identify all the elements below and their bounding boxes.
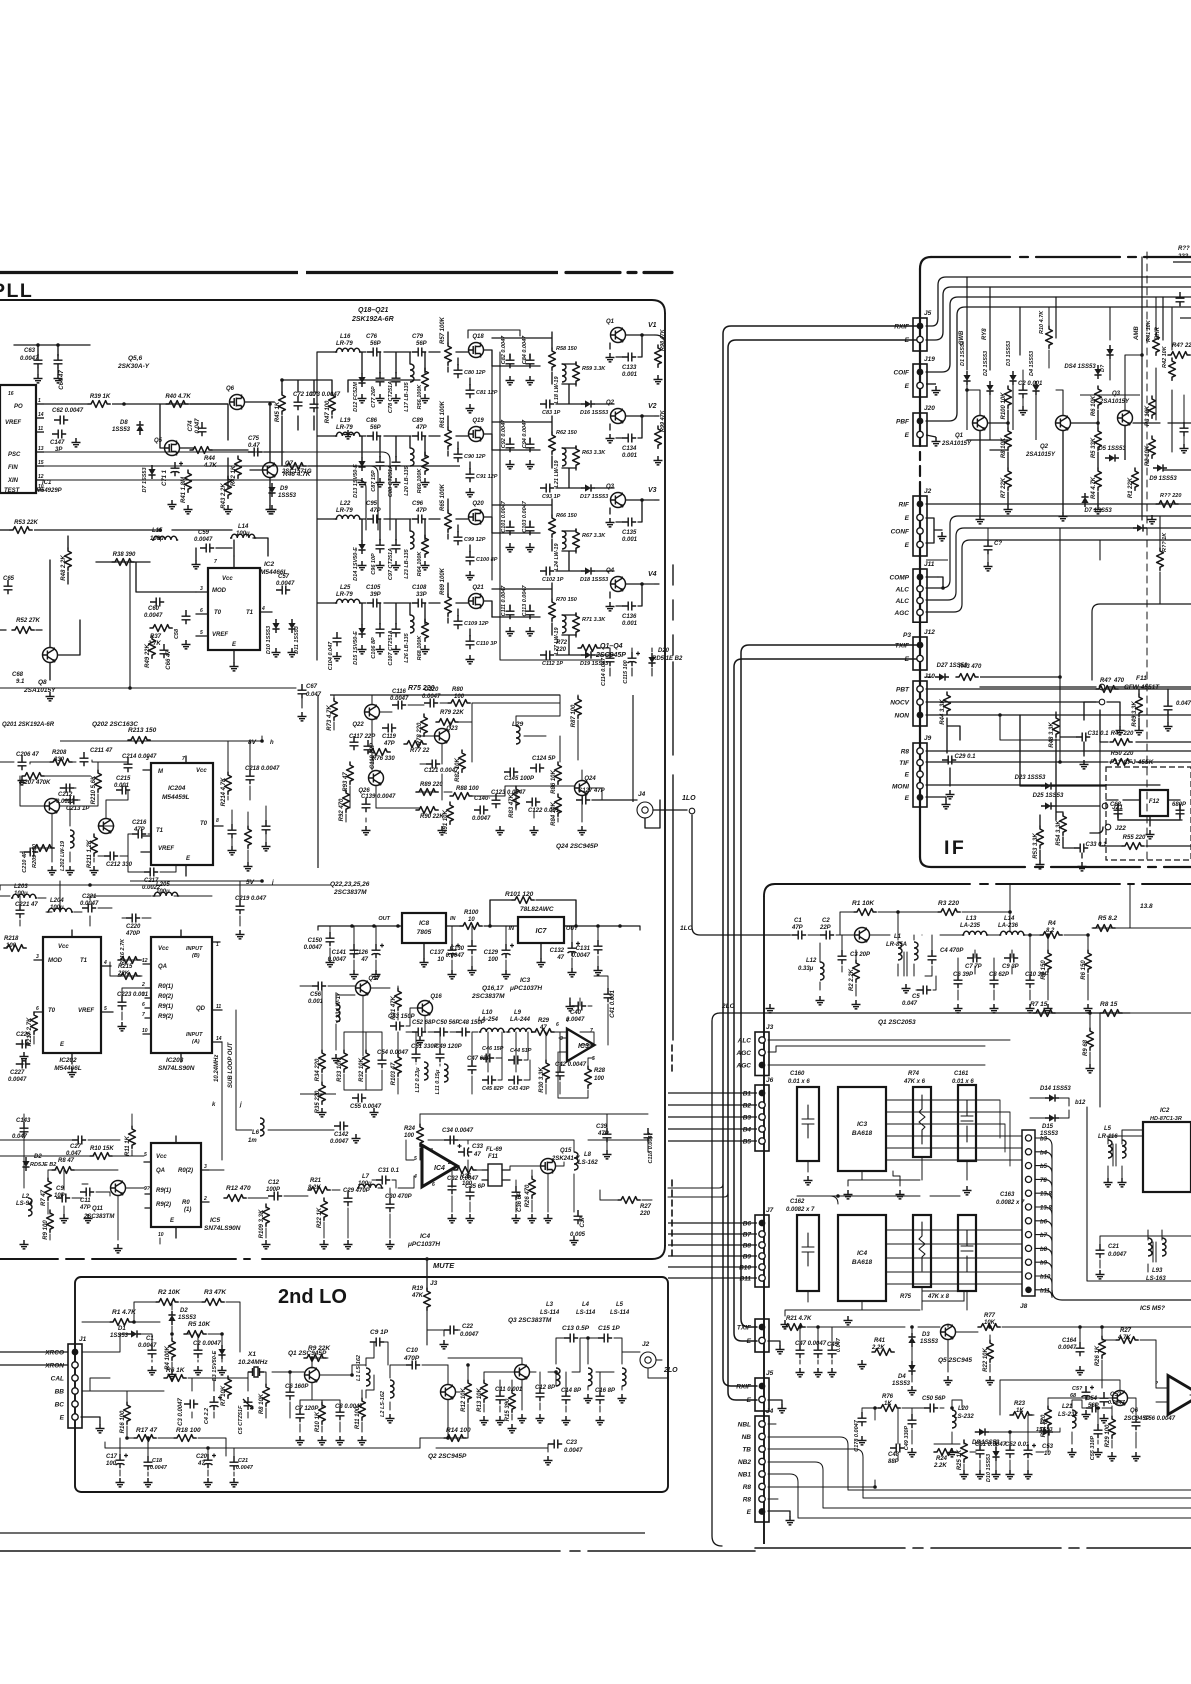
ground C82 f (506, 376, 515, 385)
wire j1 E gnd (81, 1417, 100, 1424)
svg-text:BA618: BA618 (852, 1130, 873, 1137)
IF block top border dash-dot (931, 256, 1191, 258)
ground txb1 (796, 1368, 805, 1377)
svg-text:0.001: 0.001 (622, 372, 638, 378)
resistor R26 1K b (1095, 1336, 1105, 1366)
ground R47 (344, 430, 353, 439)
wire long bottom line B (0, 1550, 755, 1552)
svg-text:B1: B1 (743, 1091, 752, 1098)
svg-text:R16 100: R16 100 (120, 1410, 126, 1433)
diode D14 1SV50-E (358, 540, 365, 554)
wire R40 out (190, 403, 228, 405)
resistor R24 100 (417, 1124, 424, 1146)
resistor R61 100K (445, 427, 452, 449)
svg-text:R52 27K: R52 27K (16, 618, 40, 624)
resistor R35 220 (315, 1082, 325, 1113)
svg-text:C134: C134 (622, 446, 637, 452)
capacitor C7 120P lo (295, 1406, 319, 1422)
svg-text:R0(2): R0(2) (158, 994, 173, 1000)
svg-text:Q24: Q24 (584, 776, 596, 782)
svg-text:R4 4.7K: R4 4.7K (1091, 476, 1097, 499)
svg-text:R77: R77 (984, 1313, 996, 1319)
wire R8 line (926, 750, 1191, 752)
resistor R22 1K (317, 1198, 327, 1228)
wire long bottom line A (0, 1532, 645, 1534)
wire long bottom line B dashed right (755, 1547, 1191, 1549)
wire R55 (1100, 845, 1191, 847)
svg-text:F12: F12 (1149, 799, 1160, 805)
resistor R11 100 lo (355, 1398, 365, 1429)
svg-text:BC: BC (55, 1402, 65, 1409)
svg-text:M54459L: M54459L (162, 794, 189, 801)
capacitor C11 0.001 lo (495, 1387, 523, 1404)
PLL block right border (664, 313, 666, 1246)
svg-text:IC204: IC204 (168, 785, 186, 792)
svg-text:C108: C108 (412, 585, 427, 591)
svg-text:0.001: 0.001 (622, 621, 638, 627)
capacitor C49 120P (435, 1044, 463, 1062)
inductor L15 100u (152, 536, 178, 540)
capacitor C99 12P (454, 531, 463, 545)
resistor R51 1K if (1157, 548, 1164, 570)
wire R45 (1100, 710, 1191, 742)
svg-text:1SS53: 1SS53 (920, 1339, 939, 1345)
capacitor C129 100 polarized (502, 944, 515, 959)
ground c161 (963, 1186, 972, 1195)
wire Q col bus (655, 335, 665, 584)
resistor R2 10K lo (156, 1299, 178, 1306)
svg-text:C10: C10 (406, 1347, 418, 1354)
capacitor C41 0.001 (604, 988, 617, 1018)
svg-text:J2: J2 (924, 488, 932, 495)
capacitor C18 0.0047 lo (144, 1456, 153, 1470)
svg-text:47: 47 (473, 1152, 481, 1158)
transistor Q201 (45, 799, 60, 814)
ground r41b (858, 1360, 867, 1369)
ground C150 (326, 958, 335, 967)
inductor L14 100u (230, 534, 256, 538)
svg-text:C86: C86 (366, 418, 378, 424)
wire nb circuit (862, 1380, 1136, 1470)
svg-text:D2: D2 (180, 1308, 188, 1314)
svg-text:R86 10K: R86 10K (551, 769, 557, 793)
svg-text:b12: b12 (1075, 1100, 1086, 1106)
svg-text:1: 1 (216, 942, 219, 948)
svg-text:TEST: TEST (4, 488, 21, 494)
svg-text:E: E (60, 1415, 65, 1422)
2nd LO block border (75, 1277, 668, 1492)
svg-text:B11: B11 (740, 1276, 752, 1283)
capacitor C136 0.001 (622, 602, 636, 611)
svg-text:C4 470P: C4 470P (940, 948, 964, 954)
svg-text:B4: B4 (743, 1127, 752, 1134)
capacitor C80 12P (454, 364, 463, 378)
ground Q4 e (606, 602, 615, 611)
wire RXIF-E run upper (728, 340, 920, 1400)
svg-text:R24: R24 (936, 1456, 948, 1462)
ground bs3 (84, 1214, 93, 1223)
svg-text:0.47: 0.47 (248, 443, 260, 449)
diode D15 1SS53 (1045, 1114, 1059, 1121)
ground L25 row a (358, 645, 367, 654)
capacitor C113 0.0047 (526, 605, 535, 619)
svg-text:C23: C23 (566, 1440, 578, 1446)
svg-text:C161: C161 (954, 1071, 969, 1077)
svg-text:XRCO: XRCO (44, 1350, 64, 1357)
ground mid3 (530, 826, 539, 835)
svg-text:Q20: Q20 (472, 501, 484, 507)
connector J3 ALC (736, 1024, 774, 1076)
capacitor C96 47P (412, 515, 426, 524)
svg-text:C4 2.2: C4 2.2 (204, 1408, 210, 1424)
svg-text:NON: NON (895, 713, 910, 720)
ground C132 (568, 968, 577, 977)
svg-text:R41 10K: R41 10K (1146, 319, 1152, 342)
svg-text:R46 4.7K: R46 4.7K (283, 471, 312, 478)
svg-text:X1: X1 (247, 1351, 256, 1358)
inductor L11 0.15u (444, 1064, 448, 1082)
capacitor array C160 (797, 1087, 819, 1161)
resistor R52 27K (12, 618, 41, 633)
resistor array R75 (913, 1215, 931, 1287)
ground d3 lo (218, 1366, 227, 1375)
ground lo l2b (584, 1394, 593, 1403)
inductor L23 LB-135 (410, 531, 414, 549)
svg-text:R214 4.7K: R214 4.7K (221, 777, 227, 806)
svg-text:L26 LB-135: L26 LB-135 (404, 632, 410, 662)
resistor R7 22K (1001, 468, 1011, 498)
ground dig1 (68, 1068, 77, 1077)
svg-text:47P: 47P (791, 925, 804, 931)
svg-text:C82 0.0047: C82 0.0047 (501, 335, 507, 364)
svg-text:R34 220: R34 220 (315, 1058, 321, 1081)
ground nb10 (1108, 1452, 1117, 1461)
svg-text:16: 16 (8, 391, 14, 397)
svg-text:R28: R28 (594, 1068, 606, 1074)
svg-text:C21: C21 (238, 1458, 248, 1464)
capacitor C36 6P (512, 1186, 524, 1212)
ground R98 47K (654, 375, 663, 384)
wire ic2 wiring (1108, 1130, 1143, 1178)
wire R53 (0, 529, 10, 531)
wire power rail (318, 926, 640, 930)
svg-text:J1: J1 (79, 1336, 87, 1343)
capacitor C67 0.047 (298, 684, 307, 698)
svg-text:C9 3P: C9 3P (1002, 964, 1020, 970)
filter element F12 (1140, 790, 1168, 816)
wire 2lo tail (1090, 928, 1191, 1064)
svg-text:C212 330: C212 330 (106, 862, 133, 868)
wire row Q20 out (492, 499, 614, 571)
svg-text:LR-79: LR-79 (336, 592, 353, 598)
svg-text:L13: L13 (966, 916, 977, 922)
svg-text:12: 12 (38, 474, 44, 480)
svg-text:2.7K: 2.7K (147, 641, 161, 647)
resistor R40 4.7K (165, 394, 191, 407)
capacitor C87 15P (376, 456, 385, 470)
svg-text:33P: 33P (416, 592, 428, 598)
wire Q2 collector up (1056, 390, 1063, 415)
svg-text:R76 330: R76 330 (372, 756, 395, 762)
capacitor C219 0.047 (235, 896, 267, 914)
ground C81 12P e (466, 404, 475, 413)
resistor R53 3.3K (1033, 826, 1043, 859)
inductor L13 LW-17 (336, 1004, 340, 1022)
diode D17 1SS53 (581, 484, 595, 491)
capacitor C101 0.0047 (506, 521, 515, 535)
svg-text:0.33μ: 0.33μ (798, 966, 814, 972)
ground Q3 cluster (1148, 515, 1157, 524)
svg-text:6: 6 (432, 1182, 435, 1188)
ground Q1 e (606, 353, 615, 362)
inductor L20 LS-232 (952, 1410, 956, 1428)
transformer core L1 (904, 952, 907, 976)
svg-text:F11: F11 (488, 1154, 499, 1160)
svg-text:D2: D2 (34, 1154, 42, 1160)
svg-text:2nd LO: 2nd LO (278, 1286, 347, 1308)
svg-text:R100 10K: R100 10K (1001, 392, 1007, 420)
svg-text:C6 39P: C6 39P (953, 972, 974, 978)
svg-text:3: 3 (204, 1164, 207, 1170)
ground C97 c (392, 561, 401, 570)
capacitor C103 0.0047 (526, 521, 535, 535)
wire row Q19 main (334, 416, 492, 469)
resistor R11 1K (125, 1126, 135, 1156)
ground r22b (986, 1376, 995, 1385)
svg-text:L5: L5 (616, 1302, 624, 1308)
capacitor C118 22P (364, 740, 377, 769)
svg-text:LR-85A: LR-85A (886, 942, 907, 948)
svg-text:6: 6 (36, 1006, 39, 1012)
svg-text:C43 43P: C43 43P (508, 1086, 530, 1092)
svg-text:C57: C57 (278, 574, 290, 580)
ground lo c12 (536, 1414, 545, 1423)
svg-text:C5 CTZ51F: C5 CTZ51F (238, 1405, 244, 1434)
wire Q4 out (610, 584, 642, 606)
resistor R87 100 (571, 696, 581, 727)
svg-text:R210 5.6K: R210 5.6K (91, 775, 97, 804)
svg-text:R2 10K: R2 10K (158, 1289, 181, 1296)
wire r219 (247, 812, 249, 862)
svg-text:C131: C131 (576, 946, 591, 952)
capacitor C126 47 polarized (372, 944, 385, 959)
svg-text:C96 10P: C96 10P (371, 553, 377, 575)
transistor Q20 FET (469, 501, 485, 525)
svg-text:L20 LB-135: L20 LB-135 (404, 465, 410, 495)
capacitor Cx b (814, 1344, 823, 1358)
resistor R18 100 lo (174, 1435, 196, 1442)
wire MUTE into block (426, 1310, 428, 1345)
svg-text:C96: C96 (412, 501, 424, 507)
transistor Q202b (99, 819, 114, 834)
wire RY8 drop (989, 287, 991, 370)
resistor R78 220 (417, 714, 427, 745)
ground lo c14 (562, 1416, 571, 1425)
resistor R76 1K b (878, 1405, 900, 1412)
resistor R47 100 (325, 392, 335, 423)
svg-text:TB: TB (742, 1447, 751, 1454)
svg-text:3: 3 (200, 586, 203, 592)
wire top rule dash-dot tail (566, 271, 672, 274)
resistor R70 150 (549, 599, 556, 621)
ground C110 3P e (466, 655, 475, 664)
ground C39 (603, 1150, 612, 1159)
inductor L19 LR-79 (335, 432, 361, 436)
diode D20 RD5.1EB2 (648, 653, 655, 667)
resistor R4 8.2 rx (1040, 932, 1062, 939)
ground C88 c (392, 478, 401, 487)
svg-text:Vcc: Vcc (222, 576, 233, 582)
svg-text:R42 10K: R42 10K (1162, 345, 1168, 368)
capacitor C54 56P b (1086, 1404, 1100, 1413)
capacitor C226 (16, 1040, 30, 1049)
ground C92 f (506, 460, 515, 469)
inductor L5 sec (1122, 1140, 1126, 1158)
svg-text:Q18–Q21: Q18–Q21 (358, 307, 388, 314)
svg-text:C121 0.0047: C121 0.0047 (424, 768, 459, 774)
transistor Q11 2SC383TM (111, 1181, 126, 1196)
svg-text:2SC3837M: 2SC3837M (333, 889, 367, 896)
svg-text:C41 0.001: C41 0.001 (610, 990, 616, 1018)
svg-text:C64 47: C64 47 (59, 370, 65, 390)
svg-text:R49 3.3K: R49 3.3K (1132, 701, 1138, 727)
transistor Q6 FET (226, 386, 245, 410)
wire upper digital (0, 736, 262, 872)
svg-text:PSC: PSC (8, 452, 21, 458)
capacitor C43 43P (508, 1076, 522, 1085)
svg-text:LR-79: LR-79 (336, 508, 353, 514)
wire k j drops (222, 1100, 334, 1160)
ground Q2 e (606, 434, 615, 443)
svg-text:D13 1SV50-E: D13 1SV50-E (353, 464, 359, 498)
resistor R218 100 (4, 945, 26, 952)
wire D3 drop (1012, 385, 1014, 430)
ground r4 lo (168, 1370, 177, 1379)
svg-text:D14 1SS53: D14 1SS53 (1040, 1086, 1071, 1092)
svg-text:D3 1SV50-E: D3 1SV50-E (212, 1350, 218, 1381)
capacitor C214 0.0047 (122, 754, 157, 772)
diode D2 1SS53 lo (168, 1311, 175, 1325)
capacitor C84 0.0047 (526, 354, 535, 368)
svg-text:D18 1SS53: D18 1SS53 (580, 577, 608, 583)
wire comp feed (926, 676, 931, 678)
capacitor C95 47P (367, 515, 381, 524)
svg-text:C178 0.0047: C178 0.0047 (854, 1419, 860, 1451)
svg-text:8.2: 8.2 (1046, 928, 1055, 934)
capacitor C116 0.0047 (392, 701, 406, 710)
capacitor C97 trimmer (392, 539, 401, 553)
wire right edge r2 (1142, 470, 1191, 520)
fold line vertical dash lower (671, 1045, 673, 1259)
capacitor 680P (1172, 802, 1187, 818)
wire Q3 emitter (1124, 426, 1126, 460)
ground c2if (1019, 406, 1028, 415)
svg-text:C3 20P: C3 20P (850, 952, 871, 958)
diode D7 1SS53 (148, 465, 155, 479)
svg-text:R7 22K: R7 22K (1001, 477, 1007, 498)
svg-text:R17 47: R17 47 (136, 1427, 157, 1434)
wire row Q20 main (334, 499, 492, 552)
wire IF mid bus 3 (926, 528, 1191, 600)
svg-text:C44 51P: C44 51P (510, 1048, 532, 1054)
svg-text:R5 10K: R5 10K (188, 1321, 211, 1328)
wire IF mid bus 4 (926, 540, 1191, 612)
svg-text:C33 0.1: C33 0.1 (1085, 842, 1107, 848)
wire C130 (471, 926, 473, 966)
wire bus B11 (668, 1277, 757, 1279)
wire IC7 gnd (540, 943, 542, 958)
svg-text:C7 7P: C7 7P (965, 964, 983, 970)
svg-text:R3 220: R3 220 (938, 900, 959, 907)
svg-text:5: 5 (144, 1152, 147, 1158)
svg-text:Q2: Q2 (1040, 444, 1049, 450)
inductor L29 (516, 726, 520, 744)
ground c59b (1100, 1414, 1109, 1423)
resistor R25 1K b (957, 1440, 967, 1470)
svg-text:C17: C17 (106, 1454, 118, 1460)
svg-text:C65: C65 (3, 576, 15, 582)
wire Q3 out (610, 500, 642, 522)
capacitor C120 0.0047 (424, 699, 438, 708)
wire gap link b (668, 1193, 728, 1197)
svg-text:0.0047: 0.0047 (460, 1332, 479, 1338)
capacitor C127 47P (576, 796, 590, 805)
svg-text:Q5: Q5 (154, 438, 163, 444)
svg-text:Q2 2SC945P: Q2 2SC945P (428, 1453, 467, 1460)
svg-text:C132: C132 (550, 948, 565, 954)
wire IC204 pins (141, 756, 223, 876)
svg-text:IC3: IC3 (857, 1121, 868, 1128)
wire right edge drop1 (1092, 604, 1191, 680)
ground R4 cluster (1094, 505, 1103, 514)
capacitor C59b (1100, 1392, 1122, 1406)
svg-text:C1: C1 (146, 1336, 154, 1342)
svg-text:C210 4P: C210 4P (22, 851, 28, 873)
svg-text:R70 150: R70 150 (556, 597, 577, 603)
transistor Q18 FET (469, 334, 485, 358)
pin IC1-13 (36, 451, 44, 453)
svg-text:C58: C58 (174, 628, 180, 639)
svg-text:L2 LS-162: L2 LS-162 (380, 1391, 386, 1417)
svg-text:MUTE: MUTE (433, 1261, 455, 1270)
svg-text:R217 2.7K: R217 2.7K (27, 1017, 33, 1046)
capacitor C86 56P (367, 432, 381, 441)
svg-text:R6 150: R6 150 (1081, 960, 1087, 980)
svg-text:0.0047: 0.0047 (330, 1139, 349, 1145)
svg-text:0.001: 0.001 (622, 453, 638, 459)
wire F12 wiring (1106, 800, 1180, 820)
svg-text:C74: C74 (188, 420, 194, 432)
svg-text:5: 5 (414, 1156, 417, 1162)
capacitor C2 0.0047 lo (193, 1341, 221, 1358)
svg-text:C56 0.0047: C56 0.0047 (1144, 1416, 1176, 1422)
capacitor C1 0.0047 lo (148, 1344, 157, 1358)
resistor R5 10K lo (184, 1331, 206, 1338)
ground l5 a (1104, 1178, 1113, 1187)
capacitor C124 5P (530, 764, 544, 773)
diode D1 (963, 371, 970, 385)
wire c162 top link (797, 1196, 960, 1204)
inductor L26 LB-135 (410, 615, 414, 633)
inductor L1 LS-162 lo (366, 1368, 370, 1386)
svg-text:Q6: Q6 (1130, 1408, 1139, 1414)
svg-text:R4: R4 (1048, 921, 1056, 927)
svg-text:J4: J4 (638, 791, 646, 798)
inductor L14 LA-236 (999, 931, 1025, 935)
svg-text:C104 0.047: C104 0.047 (328, 641, 334, 670)
svg-text:C5?: C5? (1072, 1386, 1083, 1392)
resistor R219 extra (245, 826, 252, 848)
